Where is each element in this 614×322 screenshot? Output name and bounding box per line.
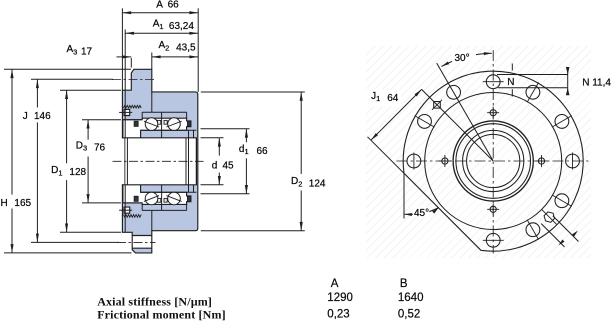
balls double row angular contact <box>145 118 158 131</box>
svg-text:128: 128 <box>69 167 86 178</box>
svg-text:B: B <box>400 278 408 290</box>
45deg flat dimension <box>403 173 405 218</box>
30deg radial line <box>437 63 494 161</box>
boss bolt-hole centerline <box>112 79 156 81</box>
svg-text:30°: 30° <box>455 53 470 64</box>
flange outline front view with 45deg flat <box>403 71 583 251</box>
svg-text:d1: d1 <box>239 144 249 156</box>
spigot circle outer <box>453 121 533 201</box>
knurled spring band top <box>123 105 141 108</box>
svg-text:N: N <box>507 77 514 88</box>
svg-text:66: 66 <box>168 0 180 11</box>
inner ring split lines <box>161 112 163 138</box>
bore chamfer circle <box>463 130 524 191</box>
dim D2 124 <box>300 92 302 174</box>
grease hole centerline bottom <box>119 209 132 211</box>
J1 64 dimension <box>422 89 494 161</box>
svg-text:45°: 45° <box>414 208 429 219</box>
dim A1 63,24 <box>125 32 198 34</box>
seal seat bore lines D3 <box>122 119 142 121</box>
svg-text:64: 64 <box>387 93 399 104</box>
bolt holes N <box>566 154 580 168</box>
svg-text:45: 45 <box>223 161 235 172</box>
svg-text:63,24: 63,24 <box>169 21 194 32</box>
svg-text:1290: 1290 <box>327 292 353 304</box>
dim A3 17 <box>117 56 132 58</box>
svg-text:J: J <box>23 111 28 122</box>
shaft centerline <box>113 160 204 162</box>
cages <box>158 120 161 124</box>
svg-text:0,23: 0,23 <box>327 309 349 321</box>
valve size leaders <box>553 216 579 242</box>
svg-text:165: 165 <box>14 198 31 209</box>
svg-text:76: 76 <box>94 143 106 154</box>
lug hole centerline <box>117 241 156 243</box>
svg-text:D3: D3 <box>76 140 87 152</box>
spigot circle inner <box>456 124 531 199</box>
svg-text:A: A <box>156 0 163 11</box>
grease relief valve hex <box>544 212 554 222</box>
dim J 146 <box>36 79 38 107</box>
dim H 165 <box>11 69 13 194</box>
svg-text:D2: D2 <box>291 176 302 188</box>
bore opening at flange face <box>121 138 125 184</box>
svg-text:0,52: 0,52 <box>398 309 420 321</box>
bearing unit housing (flanged cartridge, cross-section) <box>122 69 197 253</box>
svg-text:146: 146 <box>34 111 51 122</box>
svg-text:H: H <box>1 198 8 209</box>
dim A 66 <box>122 12 198 14</box>
svg-text:66: 66 <box>257 146 269 157</box>
svg-text:124: 124 <box>309 178 326 189</box>
housing body circle D2 <box>425 93 562 230</box>
svg-text:Axial stiffness [N/µm]: Axial stiffness [N/µm] <box>97 294 212 308</box>
svg-text:A1: A1 <box>153 18 164 30</box>
dim A2 43,5 <box>152 56 198 58</box>
svg-text:N 11,4: N 11,4 <box>582 77 611 88</box>
svg-text:A3: A3 <box>67 44 78 56</box>
inner ring shoulder lines <box>141 129 197 131</box>
flange face line A1 <box>124 90 126 138</box>
svg-text:A: A <box>331 278 339 290</box>
svg-text:d: d <box>212 161 218 172</box>
svg-text:17: 17 <box>81 47 93 58</box>
svg-text:D1: D1 <box>51 165 62 177</box>
ext lines top dims <box>121 8 123 90</box>
knurled spring band bottom <box>123 215 141 218</box>
svg-text:A2: A2 <box>159 40 170 52</box>
svg-text:1640: 1640 <box>398 292 424 304</box>
svg-text:43,5: 43,5 <box>176 42 196 53</box>
vertical centerline <box>492 50 494 254</box>
flange front face line <box>151 92 153 112</box>
svg-text:Frictional moment [Nm]: Frictional moment [Nm] <box>97 307 226 321</box>
bore step lines <box>124 138 126 185</box>
dim d 45 <box>218 138 220 156</box>
bore circle <box>467 134 520 187</box>
small threaded holes <box>538 158 544 164</box>
dim d1 66 <box>245 129 247 142</box>
housing bore / outer ring boundary <box>142 111 186 113</box>
dim D1 128 <box>66 90 68 163</box>
grease hole centerline top <box>119 111 132 113</box>
dim D3 76 <box>87 120 89 140</box>
N hole dimension <box>497 74 568 76</box>
grease fitting square at 135deg <box>434 102 441 109</box>
30deg dimension arc <box>442 53 492 66</box>
horizontal centerline <box>397 160 590 162</box>
outer ring side edges <box>141 112 143 118</box>
seals <box>134 121 138 126</box>
